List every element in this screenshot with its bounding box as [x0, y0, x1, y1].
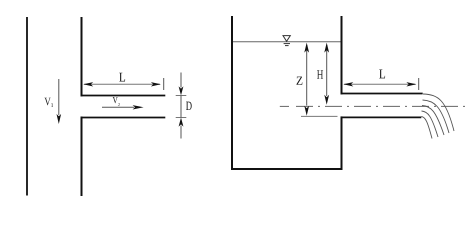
- dimension L tick (left figure): [163, 78, 165, 90]
- label Z: [297, 77, 303, 85]
- dimension D extension line bottom: [176, 117, 187, 119]
- tank left wall: [231, 16, 233, 170]
- label D: [186, 102, 192, 110]
- outlet pipe bottom wall (right figure): [341, 116, 422, 118]
- dimension H: [324, 43, 329, 105]
- tank bottom: [231, 168, 343, 170]
- dimension L (right figure): [343, 82, 416, 86]
- label L (right figure): [379, 70, 385, 79]
- left wall of approach channel: [26, 17, 28, 196]
- upper right wall of approach channel: [81, 17, 83, 96]
- jet streamline 5 (innermost, from pipe bottom): [421, 117, 432, 139]
- lower right wall of approach channel: [81, 117, 83, 197]
- arrow V1 (downward velocity arrow): [57, 79, 62, 124]
- water level symbol (inverted triangle): [283, 36, 290, 46]
- label V1: [44, 98, 50, 106]
- dimension Z: [304, 43, 309, 116]
- jet streamline 3: [422, 106, 444, 136]
- dimension D (outside arrows): [179, 73, 184, 139]
- outlet pipe top wall (right figure): [341, 93, 423, 95]
- jet streamline 1 (outermost, from pipe top): [423, 94, 454, 131]
- tank right wall upper: [341, 16, 343, 94]
- arrow V2 (pipe velocity arrow): [102, 105, 144, 109]
- tank right wall lower: [341, 116, 343, 170]
- label L (left figure): [119, 73, 125, 82]
- jet streamline 4: [422, 111, 439, 137]
- label V2: [113, 97, 118, 103]
- pipe top wall (left figure): [81, 95, 166, 97]
- dimension L tick (right figure): [418, 78, 420, 90]
- dimension L (left figure): [83, 82, 161, 86]
- extension line at pipe invert: [301, 115, 338, 117]
- dimension D extension line top: [176, 95, 187, 97]
- label H: [317, 70, 323, 79]
- water surface line: [233, 41, 341, 43]
- centerline of outlet pipe (dash-dot): [280, 105, 289, 107]
- jet streamline 2: [423, 100, 450, 133]
- pipe bottom wall (left figure): [81, 117, 166, 119]
